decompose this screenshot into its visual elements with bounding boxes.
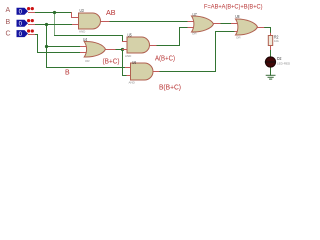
svg-text:B(B+C): B(B+C): [159, 84, 181, 91]
svg-text:B: B: [6, 19, 11, 26]
svg-text:A(B+C): A(B+C): [155, 56, 175, 63]
svg-text:U3: U3: [80, 8, 85, 13]
svg-text:AND: AND: [129, 81, 136, 85]
svg-text:B: B: [65, 70, 70, 77]
svg-text:U6: U6: [132, 60, 137, 65]
svg-text:U4: U4: [83, 37, 88, 42]
svg-text:AB: AB: [106, 10, 116, 17]
svg-text:U7: U7: [193, 12, 198, 17]
svg-text:F=AB+A(B+C)+B(B+C): F=AB+A(B+C)+B(B+C): [204, 4, 263, 11]
svg-text:D2: D2: [277, 56, 282, 61]
svg-text:(B+C): (B+C): [103, 59, 120, 66]
svg-text:U5: U5: [128, 33, 133, 38]
svg-text:C: C: [6, 30, 11, 37]
svg-text:10k: 10k: [274, 39, 279, 43]
svg-text:A: A: [6, 7, 11, 14]
svg-text:AND: AND: [79, 30, 86, 34]
svg-text:AND: AND: [125, 54, 132, 58]
svg-text:LED-RED: LED-RED: [277, 62, 291, 66]
svg-text:U8: U8: [235, 14, 240, 19]
